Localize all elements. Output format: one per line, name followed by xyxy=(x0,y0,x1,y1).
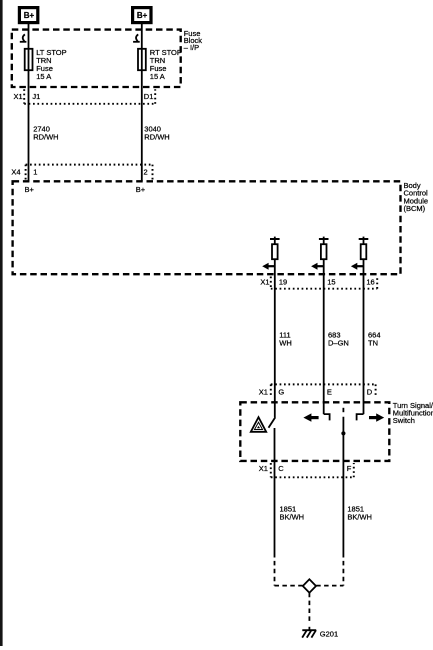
svg-text:BK/WH: BK/WH xyxy=(280,513,305,522)
svg-text:19: 19 xyxy=(279,277,287,286)
svg-text:J1: J1 xyxy=(32,92,40,101)
svg-text:B+: B+ xyxy=(137,11,148,20)
svg-text:WH: WH xyxy=(279,339,292,348)
svg-text:2: 2 xyxy=(144,168,148,177)
svg-text:15 A: 15 A xyxy=(150,72,165,81)
svg-text:– I/P: – I/P xyxy=(184,43,199,52)
svg-text:G201: G201 xyxy=(320,630,338,639)
svg-text:G: G xyxy=(278,388,284,397)
svg-text:RD/WH: RD/WH xyxy=(144,133,169,142)
svg-text:X1: X1 xyxy=(260,277,269,286)
svg-text:TN: TN xyxy=(368,339,378,348)
svg-text:C: C xyxy=(278,464,284,473)
svg-text:Switch: Switch xyxy=(393,416,415,425)
svg-text:F: F xyxy=(347,464,352,473)
svg-text:X1: X1 xyxy=(14,92,23,101)
svg-text:RD/WH: RD/WH xyxy=(33,133,58,142)
svg-text:(BCM): (BCM) xyxy=(404,204,426,213)
svg-text:D: D xyxy=(367,388,373,397)
svg-text:15: 15 xyxy=(327,277,335,286)
svg-text:15 A: 15 A xyxy=(36,72,51,81)
svg-text:X4: X4 xyxy=(11,168,20,177)
svg-text:D–GN: D–GN xyxy=(328,339,349,348)
svg-text:B+: B+ xyxy=(136,185,146,194)
svg-text:1: 1 xyxy=(33,168,37,177)
svg-text:X1: X1 xyxy=(259,388,268,397)
svg-text:BK/WH: BK/WH xyxy=(347,513,372,522)
svg-text:B+: B+ xyxy=(25,185,35,194)
svg-text:E: E xyxy=(327,388,332,397)
svg-text:B+: B+ xyxy=(24,11,35,20)
svg-text:X1: X1 xyxy=(259,464,268,473)
svg-text:D1: D1 xyxy=(144,92,154,101)
svg-text:16: 16 xyxy=(366,277,374,286)
